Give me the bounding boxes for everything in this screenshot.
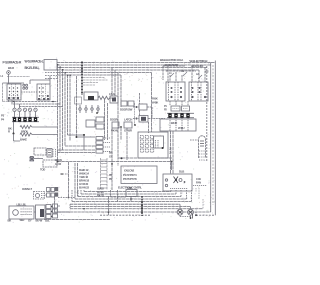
- wire drop to relay board: [151, 73, 153, 133]
- wire drops x75 x77.5: [75, 163, 78, 199]
- svg-text:R: R: [8, 130, 10, 134]
- wire mid elbow: [68, 134, 85, 136]
- wire k1 internal: [170, 118, 188, 131]
- wire left edge drop: [3, 83, 13, 102]
- wire right-mid vertical: [140, 93, 149, 133]
- wire bus elbow y215: [195, 212, 197, 215]
- svg-text:4W R-SURF: 4W R-SURF: [191, 64, 204, 68]
- svg-text:TOD: TOD: [40, 168, 45, 172]
- svg-text:L1: L1: [1, 74, 4, 78]
- transformer T1: [84, 92, 98, 100]
- wire left bus: [58, 65, 71, 162]
- lamp B dark stub: [192, 214, 194, 219]
- component box lower: [43, 160, 57, 167]
- connector CN4: [96, 117, 104, 122]
- svg-text:FAN: FAN: [196, 181, 201, 185]
- contact stack: [47, 149, 52, 158]
- junction mid: [83, 134, 85, 136]
- connector dots: [51, 206, 52, 207]
- svg-text:LATCH: LATCH: [124, 118, 132, 122]
- wire ctrl drop: [171, 162, 173, 171]
- wire h10: [100, 214, 215, 216]
- svg-text:W-SURFACE-L: W-SURFACE-L: [25, 60, 44, 64]
- svg-text:CN1 CN2: CN1 CN2: [124, 169, 135, 173]
- lock lamp: [13, 210, 19, 216]
- wire h7: [70, 206, 191, 208]
- wire h4: [75, 198, 187, 200]
- junction y174: [61, 173, 63, 175]
- relay cluster K2: [163, 174, 192, 191]
- connector column A: [46, 205, 51, 209]
- wire bottom staircase h1: [84, 191, 171, 193]
- junction column: [141, 196, 143, 216]
- junction center: [96, 112, 98, 114]
- wire staircase right risers: [171, 190, 192, 202]
- wire bus elbow y146: [65, 145, 96, 147]
- svg-text:W-BK: W-BK: [152, 101, 158, 105]
- door lock box: [9, 206, 34, 219]
- wire h8 riser: [202, 199, 204, 209]
- svg-text:R-BK: R-BK: [152, 97, 158, 101]
- svg-text:OVEN LT: OVEN LT: [22, 187, 32, 191]
- wire door lock links: [34, 206, 70, 212]
- resistor R10: [98, 96, 115, 99]
- resistor R2: [20, 125, 58, 128]
- junction box JB1: [44, 60, 57, 71]
- terminal block TB1: [12, 117, 39, 121]
- electronic oven control EOC: [121, 166, 157, 184]
- wire harness horizontal bundle: [57, 62, 215, 64]
- wire jb1 stubs: [45, 73, 57, 79]
- wire m1 feed: [190, 139, 199, 141]
- svg-text:BU-W: BU-W: [36, 219, 43, 223]
- wire h11: [44, 219, 110, 221]
- relay comp upper: [139, 104, 147, 110]
- wire mid drop: [83, 135, 85, 150]
- wire connector drop left: [54, 197, 56, 213]
- terminal block P1: [167, 113, 194, 117]
- wire center verticals: [112, 68, 121, 159]
- thermal fuse: [30, 157, 35, 162]
- relay box K1: [160, 119, 196, 131]
- junction rb: [162, 147, 164, 149]
- svg-text:DOOR SW: DOOR SW: [120, 108, 133, 112]
- wire lamp common: [180, 216, 191, 218]
- junction lamp B: [190, 217, 192, 219]
- wire x134.5: [134, 103, 136, 125]
- connector grid: [141, 136, 154, 153]
- bus corner ticks: [57, 64, 71, 76]
- band speckle: [2, 60, 215, 217]
- paper speckle noise: [4, 58, 215, 223]
- wire tjb drop: [130, 197, 132, 202]
- svg-text:BK: BK: [8, 219, 12, 223]
- wire sw1 feed: [3, 74, 25, 84]
- wire y197.5 link: [58, 197, 75, 199]
- oven lamp B: [188, 209, 194, 215]
- svg-text:DOOR: DOOR: [110, 118, 119, 122]
- wire EOC left feed: [117, 158, 119, 166]
- surface switch SW1: [7, 84, 21, 100]
- junction tjb: [130, 198, 132, 200]
- svg-text:W-R: W-R: [20, 218, 25, 222]
- broil switch SW4: [189, 82, 208, 101]
- door switch S2: [112, 122, 119, 128]
- svg-text:BK R: BK R: [171, 121, 177, 125]
- wire h8: [70, 208, 203, 210]
- wire ctrl top dashed: [58, 158, 173, 162]
- surface switch SW2: [37, 84, 50, 100]
- wire K1 drops pair: [171, 131, 174, 174]
- inner relay: [154, 136, 164, 148]
- wire junction east: [77, 136, 96, 138]
- wire right bus: [206, 66, 208, 162]
- fan motor M1: [199, 136, 206, 158]
- svg-text:BK-R: BK-R: [8, 66, 14, 70]
- junction lower: [76, 136, 78, 138]
- wire x108.5 drop: [108, 196, 110, 215]
- wire stubs: [9, 100, 36, 117]
- junction h8: [83, 208, 85, 210]
- thermal comps row: [13, 108, 16, 111]
- svg-text:P5 P6 P7 P8: P5 P6 P7 P8: [123, 177, 137, 181]
- junction y215: [195, 214, 197, 216]
- component K3: [86, 120, 95, 127]
- connector labels above P1: [171, 106, 180, 111]
- wire center drops bottom: [111, 190, 127, 202]
- svg-text:P1: P1: [164, 104, 167, 108]
- plug symbol: [7, 71, 11, 75]
- wire center left drop: [76, 76, 78, 137]
- wire spine branches: [83, 78, 108, 86]
- svg-text:GY-BR: GY-BR: [124, 129, 133, 133]
- wire s2 drop: [112, 128, 127, 164]
- svg-text:W BU: W BU: [178, 126, 185, 130]
- component pair S9: [121, 101, 127, 106]
- svg-text:DLB: DLB: [179, 170, 184, 174]
- aux box left of T1: [75, 97, 82, 104]
- wire left elbows upper: [12, 102, 63, 107]
- svg-text:P-SURFACE-R: P-SURFACE-R: [3, 61, 22, 65]
- connector column B: [53, 204, 58, 208]
- junction tb1: [13, 133, 15, 135]
- wire h9: [54, 211, 211, 213]
- junction s2: [111, 163, 113, 165]
- relay board RB1: [138, 132, 168, 158]
- latch switch S3: [124, 122, 132, 128]
- wire h5: [72, 201, 192, 203]
- component S8: [110, 96, 118, 103]
- junction x108.5: [108, 211, 110, 213]
- connector pins P2: [23, 84, 25, 86]
- oven lamp A: [177, 209, 183, 215]
- resistor R3: [20, 133, 58, 136]
- wire stub y174: [60, 173, 69, 175]
- wire staircase left risers: [70, 190, 84, 209]
- bake switch SW3: [166, 82, 185, 101]
- wire upper link: [7, 76, 30, 78]
- svg-text:BR: BR: [109, 151, 113, 155]
- junction bus end: [57, 161, 59, 163]
- svg-text:H2: H2: [206, 70, 210, 74]
- svg-text:BAKE: BAKE: [20, 138, 27, 142]
- wire tb1 down: [13, 122, 15, 134]
- relay comp lower: [139, 116, 148, 123]
- connector mini stack: [47, 188, 51, 192]
- wire rows y150: [57, 150, 96, 153]
- junction box TJB: [126, 190, 137, 197]
- svg-text:L1: L1: [169, 71, 172, 75]
- junction x68.5 bottom: [68, 197, 70, 199]
- wire dome risers: [196, 188, 199, 199]
- junction steps: [13, 101, 15, 103]
- wire tod: [34, 158, 43, 160]
- connector stack CN3: [96, 137, 103, 140]
- wire h2: [81, 193, 176, 195]
- connector ladder: [101, 158, 108, 190]
- svg-text:W-ELECTRIC-B: W-ELECTRIC-B: [190, 59, 209, 63]
- wire left drop x68.5: [68, 162, 70, 198]
- wire CN4 drops: [105, 100, 108, 140]
- fuse F1 row: [79, 108, 81, 110]
- wire h6: [70, 203, 180, 205]
- TOD switch: [34, 148, 46, 155]
- junction dots row: [120, 126, 122, 128]
- svg-text:LBL: LBL: [45, 219, 50, 223]
- wire top-right mesh: [163, 66, 205, 82]
- wire sw2 feed: [30, 76, 50, 84]
- svg-text:P2: P2: [164, 108, 167, 112]
- junction ctrl: [171, 161, 173, 163]
- harness spine: [81, 62, 83, 96]
- wire sw3 drops: [170, 101, 188, 106]
- svg-text:P4: P4: [1, 118, 5, 122]
- junction eoc corner: [121, 157, 123, 159]
- wire h3: [78, 196, 181, 198]
- latch motor: [36, 205, 46, 219]
- wire mesh jogs: [170, 72, 202, 79]
- svg-text:BU-W 22: BU-W 22: [79, 186, 89, 190]
- oven light assembly: [34, 192, 45, 200]
- wire harness top-left links: [21, 91, 37, 93]
- svg-text:GY: GY: [28, 219, 32, 223]
- svg-text:BK-ELEM-L: BK-ELEM-L: [25, 66, 40, 70]
- svg-text:BK-ELECTRIC OV-A: BK-ELECTRIC OV-A: [160, 58, 184, 62]
